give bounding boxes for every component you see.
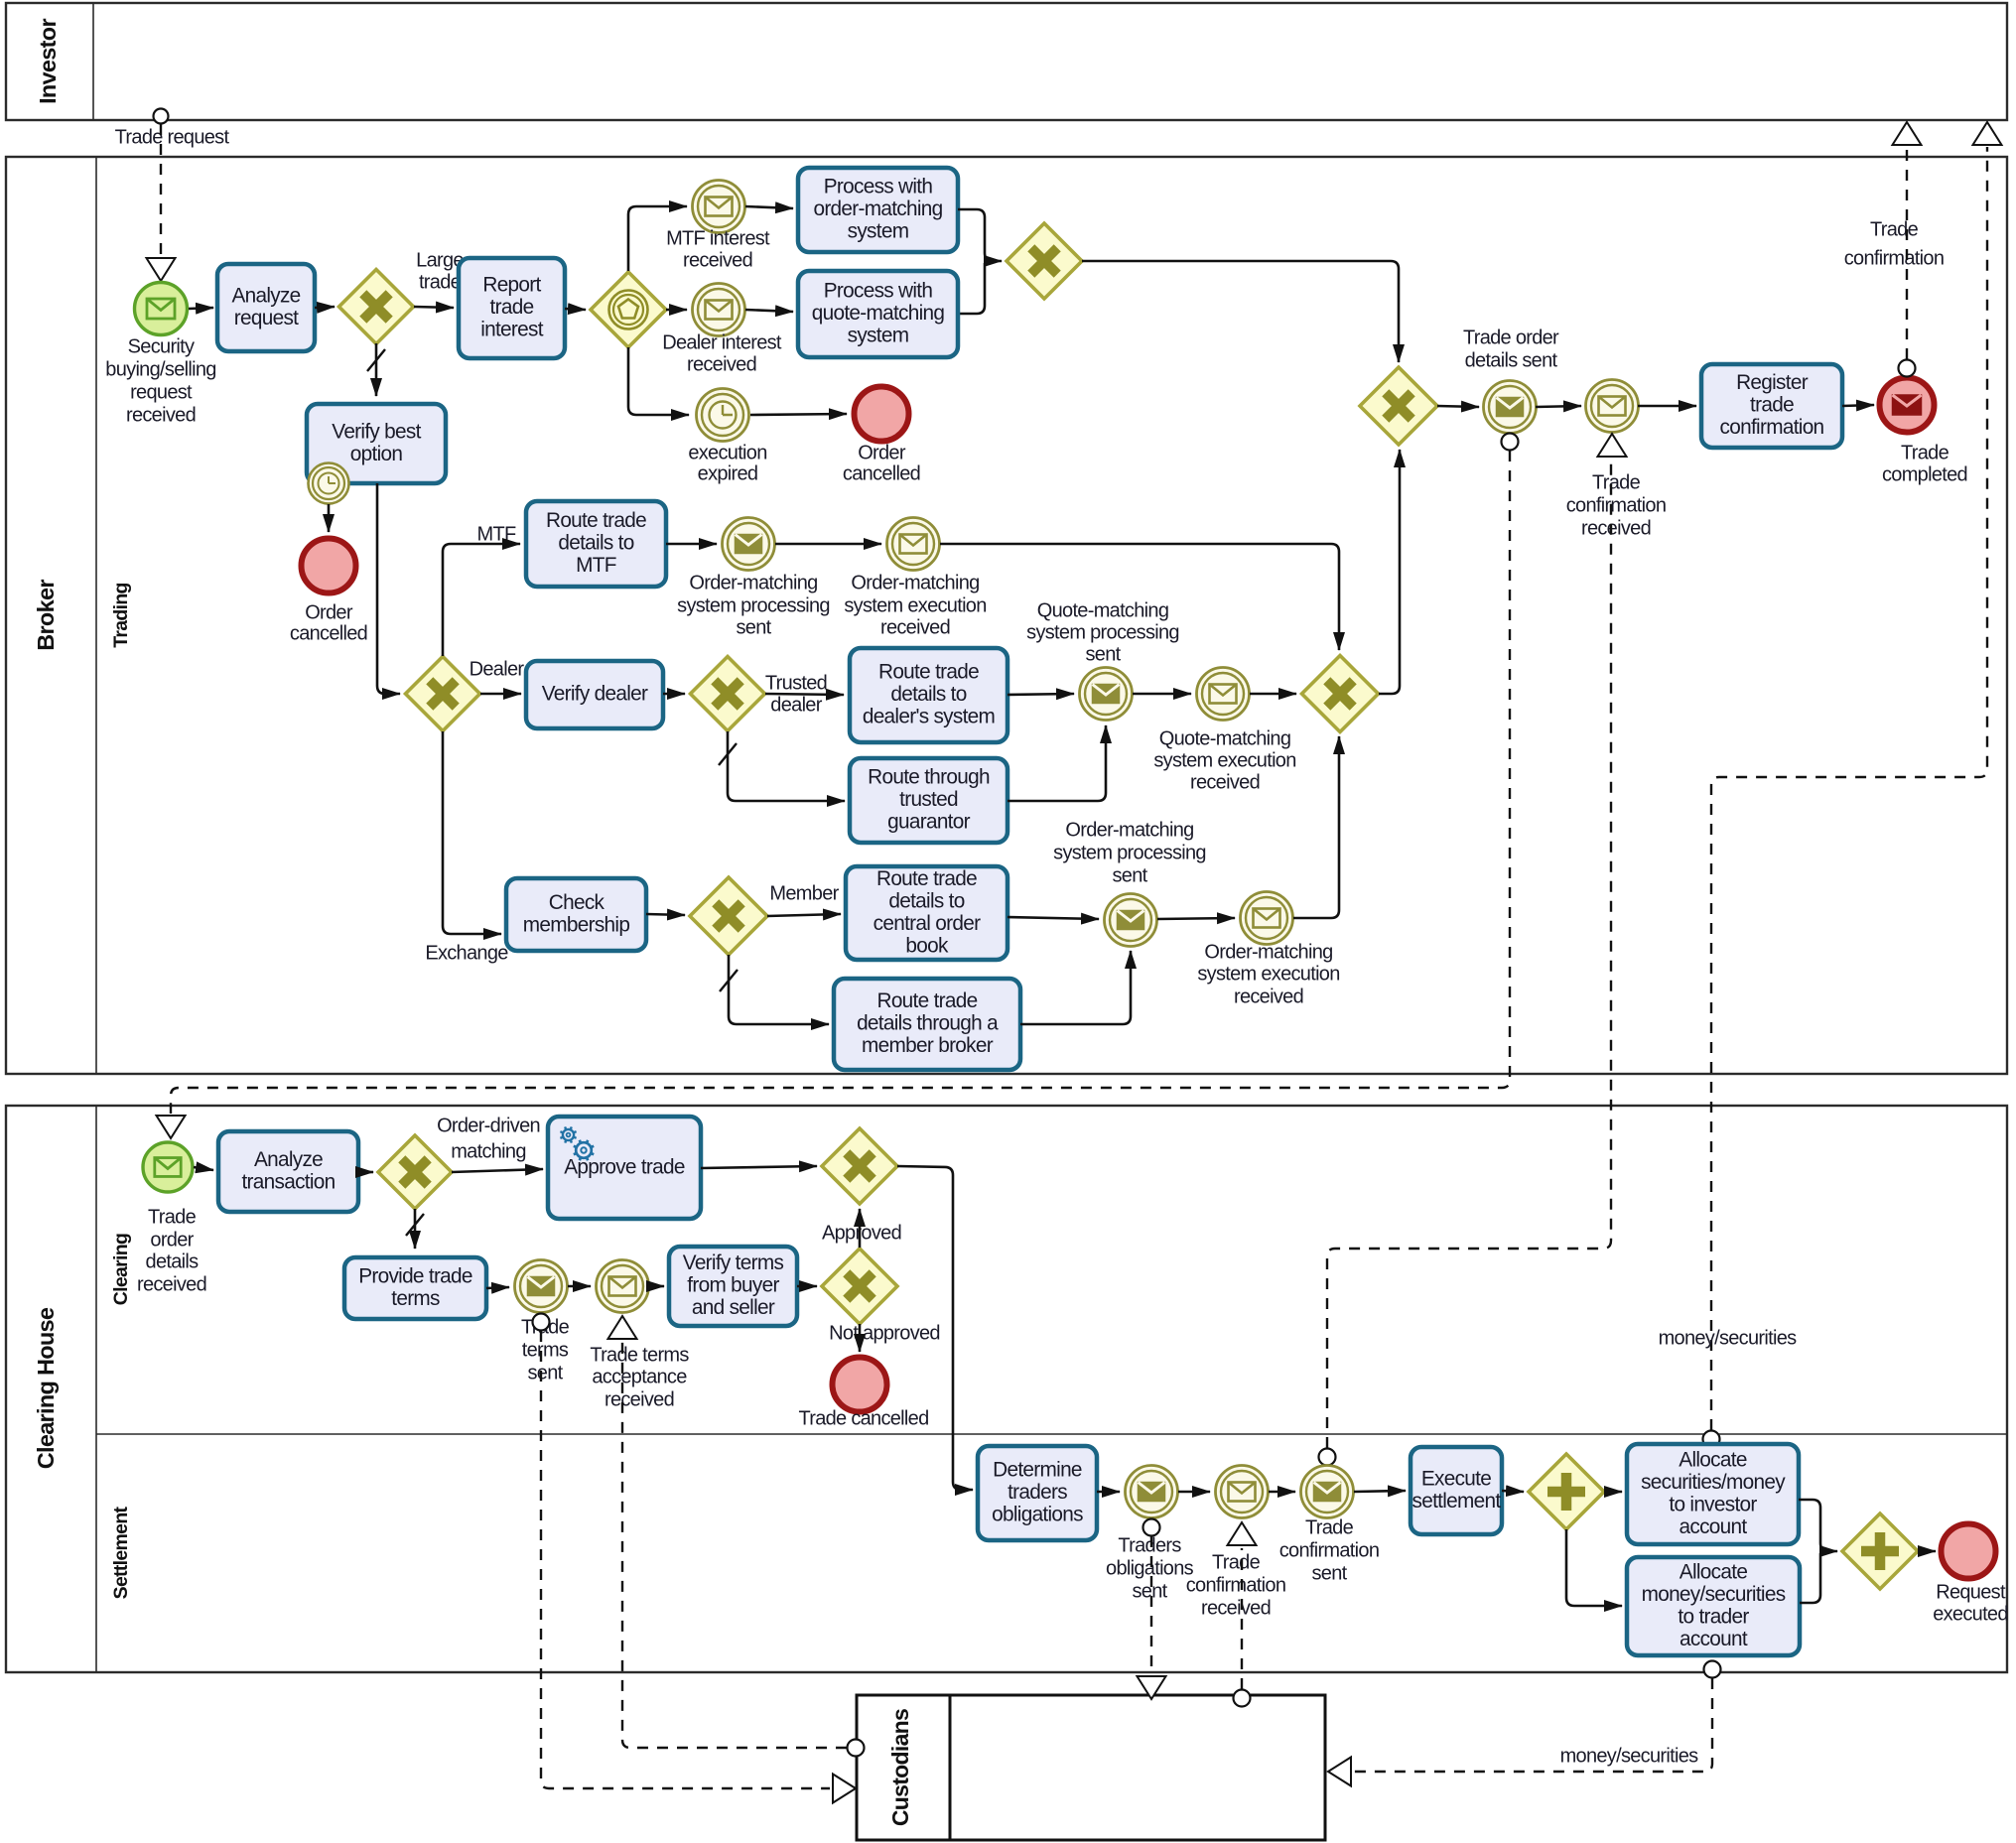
sequence flow: start -&gt; Analyze request — [189, 308, 213, 309]
svg-text:executed: executed — [1933, 1603, 2008, 1625]
sequence flow: split -&gt; Allocate money/securities — [1566, 1529, 1622, 1606]
svg-text:Exchange: Exchange — [425, 942, 508, 964]
intermediate catch message event: Quote-matching system execution received — [1197, 668, 1250, 721]
svg-text:Dealer interest: Dealer interest — [662, 331, 782, 353]
end event: Trade cancelled — [833, 1358, 887, 1412]
gateway (XOR): approved? — [822, 1249, 897, 1324]
svg-text:received: received — [1201, 1597, 1271, 1619]
task: Check membership — [506, 878, 646, 951]
svg-text:execution: execution — [688, 442, 766, 463]
svg-text:order-matching: order-matching — [813, 197, 942, 220]
label: OM processing sent (MTF) — [677, 572, 830, 638]
svg-text:details through a: details through a — [857, 1012, 999, 1035]
svg-text:details to: details to — [890, 683, 966, 706]
sequence flow: member gw -&gt; Route to central order book — [767, 914, 841, 916]
default-flow slash marker: default to guarantor — [719, 743, 737, 765]
sequence flow: trusted gw -&gt; Route through trusted guarantor — [728, 731, 845, 801]
start message event: Security buying/selling request received — [135, 283, 188, 335]
task: Allocate securities/money to investor account — [1627, 1444, 1799, 1544]
svg-text:Trade: Trade — [1870, 218, 1919, 240]
svg-text:Approved: Approved — [822, 1222, 901, 1244]
pool: Custodians — [857, 1695, 1325, 1840]
svg-text:money/securities: money/securities — [1642, 1583, 1786, 1606]
svg-text:sent: sent — [736, 616, 771, 638]
svg-text:Provide trade: Provide trade — [358, 1264, 472, 1287]
svg-text:Trade: Trade — [1305, 1516, 1354, 1538]
label: QM processing sent — [1026, 599, 1179, 665]
label: Approved — [822, 1222, 901, 1244]
intermediate catch message event: Trade terms acceptance received — [597, 1260, 649, 1313]
svg-text:guarantor: guarantor — [887, 811, 971, 834]
svg-text:request: request — [130, 381, 193, 403]
sequence flow: OM execution received -&gt; quote merge top — [940, 544, 1339, 650]
intermediate catch message event: Order-matching system execution received (MTF) — [887, 518, 940, 571]
task: Process with order-matching system — [798, 168, 958, 252]
svg-text:interest: interest — [480, 319, 544, 341]
label: Dealer interest received — [662, 331, 782, 375]
sequence flow: Trade confirmation sent -&gt; Execute settlement — [1354, 1491, 1406, 1492]
svg-text:confirmation: confirmation — [1844, 247, 1945, 269]
svg-text:account: account — [1680, 1515, 1748, 1538]
svg-text:Trade terms: Trade terms — [590, 1344, 689, 1366]
sequence flow: boundary timer -&gt; Order cancelled — [328, 504, 331, 532]
sequence flow: member broker -&gt; OM processing sent (exch) — [1020, 951, 1131, 1024]
label: QM execution received — [1153, 727, 1295, 793]
svg-text:sent: sent — [1085, 643, 1121, 665]
svg-text:terms: terms — [391, 1287, 440, 1310]
task: Approve trade (service) — [548, 1117, 701, 1219]
svg-text:member broker: member broker — [862, 1034, 994, 1057]
svg-text:system execution: system execution — [844, 594, 986, 616]
task: Process with quote-matching system — [798, 271, 958, 357]
svg-text:Request: Request — [1936, 1581, 2006, 1603]
svg-text:Analyze: Analyze — [254, 1148, 323, 1171]
gateway (XOR): merge after matching — [1007, 223, 1082, 299]
svg-text:system: system — [848, 220, 909, 243]
label: Trusted dealer — [765, 672, 827, 716]
intermediate catch message event: Order-matching system execution received (exchange) — [1241, 892, 1293, 945]
svg-text:received: received — [1234, 986, 1303, 1007]
svg-text:Security: Security — [128, 335, 195, 357]
sequence flow: gw11 -&gt; gw10 (Approved) — [859, 1209, 862, 1248]
label: Trade request — [115, 126, 230, 148]
svg-text:and seller: and seller — [692, 1296, 775, 1319]
end event: Order cancelled (verify path) — [302, 539, 356, 593]
svg-text:details to: details to — [558, 532, 633, 555]
gateway (XOR): large trade? — [339, 270, 414, 344]
svg-text:request: request — [234, 307, 299, 329]
svg-text:received: received — [126, 404, 196, 426]
svg-text:Investor: Investor — [35, 19, 61, 104]
svg-text:completed: completed — [1882, 463, 1967, 485]
svg-text:Trade: Trade — [1212, 1551, 1261, 1573]
sequence flow: venue gw -&gt; Verify dealer — [480, 693, 521, 696]
svg-text:membership: membership — [523, 913, 630, 936]
task: Analyze request — [217, 264, 315, 351]
icon: service gears on Approve trade — [560, 1126, 594, 1160]
gateway (XOR): order-driven? — [378, 1135, 452, 1209]
sequence flow: Dealer interest received -&gt; Process with quote-matching system — [745, 310, 793, 312]
svg-text:Analyze: Analyze — [231, 284, 300, 307]
svg-text:Process with: Process with — [824, 280, 933, 303]
sequence flow: OM execution received -&gt; quote merge bottom — [1293, 736, 1339, 918]
sequence flow: event gw -&gt; Dealer interest received — [666, 309, 687, 312]
label: MTF interest received — [666, 227, 770, 271]
svg-text:details to: details to — [888, 889, 964, 912]
message flow: Trade confirmation sent -&gt; Trade confirmation received (broker) — [1319, 434, 1627, 1466]
label: Dealer — [470, 658, 525, 680]
sequence flow: Provide trade terms -&gt; Trade terms sent — [486, 1287, 509, 1288]
svg-text:Clearing: Clearing — [110, 1234, 132, 1305]
svg-text:Order-matching: Order-matching — [689, 572, 817, 593]
svg-text:trade: trade — [419, 271, 462, 293]
intermediate throw message event: Order-matching system processing sent (exchange) — [1105, 894, 1157, 947]
sequence flow: order-matching -&gt; merge gw — [958, 209, 1002, 261]
gateway (XOR): trusted dealer? — [691, 657, 765, 731]
svg-text:Allocate: Allocate — [1679, 1448, 1747, 1471]
label: Trade order details received — [137, 1206, 206, 1295]
sequence flow: member gw -&gt; Route through member broker — [729, 955, 829, 1024]
label: Trade order details sent — [1463, 327, 1559, 371]
intermediate throw message event: Trade confirmation sent — [1301, 1466, 1354, 1518]
sequence flow: Allocate investor -&gt; parallel join — [1799, 1500, 1837, 1551]
label: Trade confirmation received (settlement) — [1186, 1551, 1286, 1619]
label: Traders obligations sent — [1106, 1534, 1194, 1602]
svg-text:Trade order: Trade order — [1463, 327, 1559, 348]
sequence flow: merge gw -&gt; big merge gw — [1082, 261, 1399, 362]
label: OM processing sent (exchange) — [1053, 819, 1206, 886]
label: Trade completed — [1882, 442, 1967, 485]
sequence flow: Trade confirmation received -&gt; Trade confirmation sent — [1269, 1491, 1295, 1494]
svg-text:confirmation: confirmation — [1186, 1574, 1286, 1596]
svg-text:Register: Register — [1736, 371, 1809, 394]
svg-text:sent: sent — [1311, 1562, 1347, 1584]
sequence flow: join -&gt; Request executed — [1918, 1550, 1936, 1553]
intermediate throw message event: Trade order details sent — [1484, 381, 1537, 434]
sequence flow: Verify terms -&gt; gw11 — [797, 1285, 817, 1288]
sequence flow: quote-matching -&gt; merge gw join — [958, 263, 985, 314]
svg-text:securities/money: securities/money — [1641, 1471, 1786, 1494]
task: Verify dealer — [526, 661, 663, 728]
task: Analyze transaction — [218, 1131, 358, 1212]
gateway (XOR): venue choice — [406, 657, 480, 731]
task: Verify best option — [307, 404, 446, 483]
task: Route trade details through a member broker — [834, 979, 1020, 1070]
message flow: Traders obligations sent -&gt; Custodians — [1138, 1519, 1166, 1700]
sequence flow: gw1 -&gt; Report trade interest — [414, 307, 454, 308]
task: Route trade details to MTF — [526, 501, 666, 587]
sequence flow: event gw -&gt; MTF interest received — [628, 206, 687, 271]
svg-text:money/securities: money/securities — [1560, 1745, 1699, 1767]
intermediate throw message event: Quote-matching system processing sent — [1080, 668, 1133, 721]
pool: Broker — [6, 157, 2007, 1074]
svg-text:quote-matching: quote-matching — [812, 302, 945, 325]
svg-text:book: book — [905, 934, 949, 957]
svg-text:details: details — [146, 1251, 200, 1272]
boundary timer event: timer on Verify best option — [309, 463, 349, 504]
sequence flow: start -&gt; Analyze transaction — [194, 1167, 213, 1170]
svg-text:Order-matching: Order-matching — [1065, 819, 1193, 841]
sequence flow: QM execution received -&gt; quote merge — [1250, 693, 1296, 696]
sequence flow: OM processing sent -&gt; OM execution received (exch) — [1157, 918, 1235, 919]
sequence flow: Check membership -&gt; member gw — [646, 914, 685, 915]
sequence flow: Trade confirmation received -&gt; Register trade confirmation — [1638, 405, 1696, 408]
svg-text:order: order — [150, 1229, 194, 1251]
svg-text:traders: traders — [1008, 1481, 1067, 1504]
sequence flow: gw9 -&gt; Provide trade terms — [414, 1209, 417, 1249]
label: Not approved — [829, 1322, 940, 1344]
svg-text:settlement: settlement — [1412, 1490, 1502, 1513]
task: Route trade details to central order book — [846, 866, 1008, 960]
svg-text:received: received — [1581, 517, 1651, 539]
svg-text:Clearing House: Clearing House — [33, 1307, 59, 1469]
gateway (parallel): settlement split — [1529, 1454, 1604, 1529]
svg-text:terms: terms — [522, 1339, 569, 1361]
svg-text:Check: Check — [549, 891, 605, 914]
sequence flow: Approve trade -&gt; gw10 — [701, 1166, 817, 1168]
task: Route trade details to dealer&#39;s system — [850, 648, 1008, 742]
sequence flow: Determine -&gt; Traders obligations sent — [1097, 1491, 1120, 1494]
svg-text:money/securities: money/securities — [1659, 1327, 1798, 1349]
message flow: Allocate securities/money -&gt; Investor (money/securities) — [1703, 122, 2002, 1448]
sequence flow: gw9 -&gt; Approve trade — [452, 1169, 543, 1172]
sequence flow: central order book -&gt; OM processing sent (exch) — [1008, 917, 1099, 919]
intermediate catch message event: Trade confirmation received (broker) — [1586, 380, 1639, 433]
sequence flow: venue gw -&gt; Check membership — [443, 731, 501, 934]
lane label: Custodians — [887, 1709, 913, 1826]
svg-text:obligations: obligations — [992, 1504, 1083, 1526]
lane label: Investor — [35, 19, 61, 104]
lane label: Clearing — [110, 1234, 132, 1305]
label: Exchange — [425, 942, 508, 964]
default-flow slash marker: default to Provide trade terms — [406, 1214, 424, 1236]
sequence flow: OM processing sent -&gt; OM execution received — [775, 543, 881, 546]
default-flow slash marker: default to member broker — [720, 970, 738, 991]
sequence flow: Trade terms sent -&gt; Trade terms acceptance received — [568, 1285, 591, 1288]
intermediate timer event: execution expired — [697, 389, 749, 442]
svg-text:Settlement: Settlement — [110, 1506, 132, 1599]
svg-text:dealer's system: dealer's system — [863, 706, 995, 728]
svg-text:Trade cancelled: Trade cancelled — [798, 1407, 928, 1429]
svg-text:transaction: transaction — [241, 1170, 335, 1193]
svg-text:Quote-matching: Quote-matching — [1037, 599, 1169, 621]
svg-text:trusted: trusted — [899, 788, 958, 811]
svg-text:Allocate: Allocate — [1680, 1560, 1748, 1583]
sequence flow: Traders obligations sent -&gt; Trade confirmation received — [1178, 1491, 1210, 1494]
svg-text:central order: central order — [874, 912, 981, 935]
sequence flow: execution expired -&gt; Order cancelled — [750, 414, 847, 415]
svg-text:Order: Order — [305, 601, 353, 623]
svg-text:Trade: Trade — [1901, 442, 1949, 463]
label: Trade confirmation sent — [1279, 1516, 1380, 1584]
sequence flow: Analyze request -&gt; gw1 — [315, 307, 335, 308]
label: Trade confirmation — [1844, 218, 1945, 269]
label: Member — [769, 882, 839, 904]
label: Trade terms sent — [521, 1316, 570, 1383]
lane label: Broker — [33, 580, 59, 651]
svg-text:Not approved: Not approved — [829, 1322, 940, 1344]
svg-text:from buyer: from buyer — [687, 1274, 779, 1297]
svg-text:system execution: system execution — [1153, 749, 1295, 771]
message flow: Trade completed -&gt; Investor — [1893, 122, 1922, 377]
svg-text:cancelled: cancelled — [843, 462, 920, 484]
svg-text:Route through: Route through — [868, 766, 990, 789]
sequence flow: venue gw -&gt; Route trade details to MTF — [443, 544, 520, 656]
svg-text:system processing: system processing — [677, 594, 830, 616]
svg-text:Execute: Execute — [1421, 1467, 1491, 1490]
label: execution expired — [688, 442, 766, 484]
svg-text:Custodians: Custodians — [887, 1709, 913, 1826]
sequence flow: QM processing sent -&gt; QM execution received — [1133, 693, 1191, 696]
sequence flow: Register -&gt; Trade completed — [1842, 405, 1874, 406]
svg-text:Order-driven: Order-driven — [437, 1115, 540, 1136]
svg-text:Quote-matching: Quote-matching — [1159, 727, 1291, 749]
svg-text:Trade: Trade — [1592, 471, 1641, 493]
sequence flow: quote merge -&gt; big merge gw — [1379, 450, 1400, 694]
gateway (parallel): settlement join — [1842, 1514, 1918, 1589]
label: Trade cancelled — [798, 1407, 928, 1429]
sequence flow: Route dealer system -&gt; QM processing sent — [1008, 694, 1074, 695]
message flow: Trade order details sent -&gt; Trade order details received — [157, 434, 1519, 1139]
sequence flow: big merge -&gt; Trade order details sent — [1437, 406, 1479, 407]
lane label: Clearing House — [33, 1307, 59, 1469]
svg-text:received: received — [683, 249, 752, 271]
task: Execute settlement — [1411, 1447, 1502, 1534]
svg-text:Route trade: Route trade — [876, 867, 977, 890]
svg-text:option: option — [350, 443, 403, 465]
sequence flow: split -&gt; Allocate securities/money — [1604, 1491, 1622, 1494]
label: money/securities (custodians) — [1560, 1745, 1699, 1767]
node: Trade request source — [154, 109, 169, 124]
default-flow slash marker: default to Verify best option — [367, 349, 385, 371]
svg-text:system processing: system processing — [1053, 842, 1206, 863]
svg-text:MTF: MTF — [477, 523, 516, 545]
svg-text:Determine: Determine — [993, 1459, 1082, 1482]
svg-text:to investor: to investor — [1669, 1493, 1757, 1515]
svg-text:Verify dealer: Verify dealer — [542, 683, 648, 706]
svg-text:trade: trade — [1750, 394, 1794, 417]
svg-text:Member: Member — [769, 882, 839, 904]
svg-text:acceptance: acceptance — [592, 1366, 687, 1387]
sequence flow: event gw -&gt; execution expired — [628, 347, 689, 415]
sequence flow: guarantor -&gt; QM processing sent — [1008, 725, 1106, 801]
svg-text:to trader: to trader — [1678, 1605, 1749, 1628]
sequence flow: MTF interest received -&gt; Process with order-matching system — [745, 206, 793, 208]
gateway (XOR): big merge — [1360, 367, 1437, 445]
svg-text:Trade: Trade — [148, 1206, 197, 1228]
sequence flow: Verify best option -&gt; gw dealer — [377, 483, 400, 694]
task: Determine traders obligations — [978, 1446, 1097, 1540]
task: Route through trusted guarantor — [850, 758, 1008, 843]
intermediate throw message event: Trade terms sent — [515, 1260, 568, 1313]
svg-text:received: received — [605, 1388, 674, 1410]
sequence flow: Route MTF -&gt; OM processing sent — [666, 543, 717, 546]
svg-text:Route trade: Route trade — [546, 509, 646, 532]
sequence flow: gw11 -&gt; Trade cancelled — [859, 1324, 862, 1352]
message flow: Trade request -&gt; Security buying/selling request received — [147, 124, 176, 281]
start message event: Trade order details received — [143, 1142, 193, 1192]
sequence flow: acceptance received -&gt; Verify terms — [649, 1285, 664, 1288]
label: Large trade — [416, 249, 464, 293]
sequence flow: trusted gw -&gt; Route trade details to dealer&#39;s system — [765, 694, 844, 695]
task: Verify terms from buyer and seller — [669, 1247, 797, 1326]
svg-text:Traders: Traders — [1118, 1534, 1181, 1556]
svg-text:account: account — [1680, 1628, 1748, 1650]
svg-text:MTF interest: MTF interest — [666, 227, 770, 249]
svg-text:Process with: Process with — [824, 176, 933, 198]
svg-text:Verify terms: Verify terms — [683, 1251, 784, 1274]
sequence flow: Report trade interest -&gt; event gateway — [565, 309, 586, 310]
gateway (XOR): member? — [690, 877, 767, 955]
svg-text:Broker: Broker — [33, 580, 59, 651]
label: Order-driven matching — [437, 1115, 540, 1162]
svg-text:Trading: Trading — [110, 583, 132, 648]
task: Allocate money/securities to trader account — [1627, 1557, 1800, 1655]
svg-text:sent: sent — [1132, 1580, 1167, 1602]
gateway (XOR): quote merge — [1302, 656, 1379, 732]
message flow: Custodians -&gt; Trade confirmation received (settlement) — [1228, 1522, 1257, 1707]
svg-text:cancelled: cancelled — [290, 622, 367, 644]
svg-text:received: received — [137, 1273, 206, 1295]
pool: Investor — [6, 3, 2007, 120]
svg-text:system: system — [848, 325, 909, 347]
svg-text:received: received — [880, 616, 950, 638]
svg-text:confirmation: confirmation — [1566, 494, 1667, 516]
end event: Trade completed — [1880, 378, 1935, 433]
end event: Request executed — [1942, 1524, 1996, 1579]
svg-text:buying/selling: buying/selling — [105, 358, 215, 380]
gateway (XOR): approved merge — [822, 1128, 897, 1204]
svg-text:received: received — [1190, 771, 1260, 793]
lane label: Trading — [110, 583, 132, 648]
sequence flow: Trade order details sent -&gt; Trade confirmation received — [1536, 406, 1581, 407]
message flow: Trade terms sent -&gt; Custodians — [533, 1314, 857, 1803]
svg-text:system processing: system processing — [1026, 621, 1179, 643]
svg-text:Trusted: Trusted — [765, 672, 827, 694]
end event: Order cancelled (timer path) — [855, 387, 909, 442]
intermediate catch message event: Dealer interest received — [693, 284, 745, 336]
svg-text:expired: expired — [698, 462, 758, 484]
intermediate catch message event: Trade confirmation received (settlement) — [1216, 1466, 1269, 1518]
svg-text:trade: trade — [490, 296, 534, 319]
svg-text:obligations: obligations — [1106, 1557, 1194, 1579]
svg-text:sent: sent — [527, 1362, 563, 1383]
intermediate catch message event: MTF interest received — [693, 181, 745, 233]
intermediate throw message event: Traders obligations sent — [1126, 1466, 1178, 1518]
label: Order cancelled (verify) — [290, 601, 367, 644]
label: OM execution received (exchange) — [1197, 941, 1339, 1007]
sequence flow: Analyze transaction -&gt; gw9 — [358, 1171, 373, 1174]
label: MTF — [477, 523, 516, 545]
label: Trade confirmation received (broker) — [1566, 471, 1667, 539]
message flow: Allocate trader -&gt; Custodians (money/securities) — [1328, 1661, 1721, 1786]
svg-text:matching: matching — [451, 1140, 526, 1162]
task: Register trade confirmation — [1701, 364, 1842, 448]
svg-text:Order: Order — [858, 442, 906, 463]
task: Provide trade terms — [344, 1257, 486, 1319]
svg-text:MTF: MTF — [576, 554, 616, 577]
sequence flow: Execute settlement -&gt; parallel split — [1502, 1491, 1524, 1492]
intermediate throw message event: Order-matching system processing sent (MTF) — [723, 518, 775, 571]
svg-text:dealer: dealer — [770, 694, 822, 716]
svg-text:system execution: system execution — [1197, 963, 1339, 985]
task: Report trade interest — [459, 258, 565, 358]
svg-text:Verify best: Verify best — [332, 420, 421, 443]
gateway (event-based): event gateway — [591, 272, 666, 347]
label: OM execution received (MTF) — [844, 572, 986, 638]
sequence flow: Allocate trader -&gt; parallel join — [1800, 1553, 1820, 1603]
label: Security buying/selling request received — [105, 335, 215, 426]
